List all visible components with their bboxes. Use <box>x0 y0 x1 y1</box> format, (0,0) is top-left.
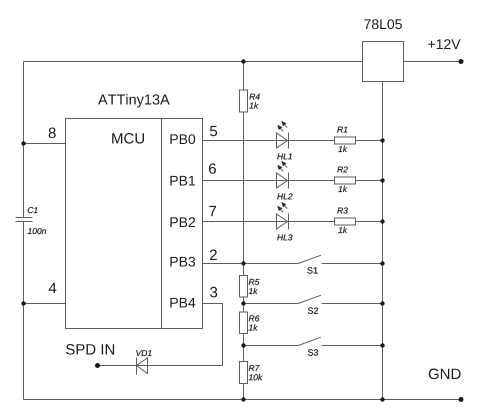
label GND <box>429 369 461 380</box>
label R2 <box>337 167 348 173</box>
label S3 <box>308 349 318 355</box>
junction mid rail / GND rail <box>241 397 245 401</box>
label R6 <box>249 315 260 321</box>
pin number 2 <box>210 250 217 261</box>
resistor R7 <box>240 362 248 384</box>
resistor R3 <box>335 218 356 225</box>
label S1 <box>307 267 317 273</box>
LED HL3 <box>277 202 289 230</box>
junction S3 / mid rail <box>241 343 245 347</box>
node SPD IN terminal <box>95 363 100 368</box>
wire R6 to R7 <box>243 334 245 362</box>
label S2 <box>308 308 318 314</box>
LED HL1 <box>277 121 289 149</box>
wire PB0 row <box>203 140 383 142</box>
wire PB1 row <box>203 180 383 182</box>
pin number 6 <box>209 163 216 174</box>
node GND terminal <box>459 397 464 402</box>
node +12V terminal <box>459 59 464 64</box>
label PB1 <box>170 176 195 186</box>
switch S3 blade <box>298 337 321 345</box>
label ATTiny13A <box>98 94 170 108</box>
label R5 <box>249 279 260 285</box>
label R1 value 1k <box>338 146 347 152</box>
pin number 5 <box>210 126 217 136</box>
label R3 value 1k <box>338 227 347 233</box>
wire left rail lower (C1 to GND) <box>23 222 25 400</box>
resistor R2 <box>335 177 356 184</box>
wire bottom GND rail <box>24 399 462 401</box>
resistor R5 <box>240 276 248 298</box>
wire R5 to R6 <box>243 297 245 312</box>
junction pin 4 / left rail <box>21 301 25 305</box>
label R5 value 1k <box>249 288 258 294</box>
label +12V <box>428 39 460 49</box>
switch S2 blade <box>298 295 321 303</box>
resistor R4 <box>240 90 248 112</box>
label R2 value 1k <box>338 186 347 192</box>
capacitor C1 <box>16 218 33 222</box>
wire S3 to right rail <box>322 345 383 347</box>
label R4 value 1k <box>249 102 258 108</box>
junction mid rail / top rail <box>241 59 245 63</box>
wire pin 4 stub <box>24 303 66 305</box>
MCU pin-column divider <box>161 119 163 329</box>
label C1 <box>28 207 38 213</box>
pin number 3 <box>210 287 217 298</box>
label C1 value 100n <box>28 228 46 234</box>
LED HL2 <box>277 161 289 189</box>
junction S2 / mid rail <box>241 301 245 305</box>
label R3 <box>337 208 348 214</box>
wire SPD IN to VD1 to PB4 <box>98 365 223 367</box>
label VD1 <box>136 350 151 356</box>
wire S1 to right rail <box>322 263 383 265</box>
wire regulator output rail <box>382 82 384 400</box>
regulator U1 78L05 <box>363 42 404 82</box>
label HL1 <box>277 154 292 160</box>
junction S3 / right rail <box>380 343 384 347</box>
pin number 4 <box>49 283 57 293</box>
label HL3 <box>277 234 292 240</box>
wire mid rail top to R4 <box>243 62 245 91</box>
junction R3 / +5V rail <box>380 219 384 223</box>
label R7 <box>249 365 260 371</box>
resistor R6 <box>240 312 248 334</box>
label R7 value 10k <box>249 374 263 380</box>
label R4 <box>250 94 260 100</box>
wire left rail upper (+5V to C1) <box>23 62 25 218</box>
label 78L05 <box>364 19 402 29</box>
pin number 8 <box>49 128 56 139</box>
wire S2 to right rail <box>322 303 383 305</box>
label HL2 <box>277 193 292 199</box>
label R6 value 1k <box>249 324 258 330</box>
wire R7 to GND rail <box>243 384 245 400</box>
wire S3 row left <box>244 345 299 347</box>
label SPD IN <box>66 344 114 355</box>
wire mid rail R4 to S1 row <box>243 112 245 276</box>
label PB0 <box>170 134 195 144</box>
label R1 <box>337 127 347 133</box>
switch S1 blade <box>298 255 321 263</box>
wire PB4 pin 3 L-bend <box>203 304 223 366</box>
label PB2 <box>170 217 195 227</box>
label PB4 <box>170 298 195 308</box>
junction S1 / mid rail <box>241 261 245 265</box>
junction pin 8 / left rail <box>21 141 25 145</box>
junction S2 / right rail <box>380 301 384 305</box>
wire S2 row left <box>244 303 299 305</box>
wire PB3 row to S1 <box>203 263 299 265</box>
wire pin 8 stub <box>24 143 66 145</box>
wire +12V input from regulator <box>404 61 462 63</box>
junction right rail / GND rail <box>380 397 384 401</box>
resistor R1 <box>335 137 356 144</box>
op-amp U2 MCU ATTiny13A body <box>66 119 203 329</box>
label PB3 <box>170 257 195 267</box>
junction R1 / +5V rail <box>380 138 384 142</box>
wire +5V top rail <box>24 61 363 63</box>
wire PB2 row <box>203 221 383 223</box>
diode VD1 <box>137 358 148 375</box>
junction S1 / right rail <box>380 261 384 265</box>
label MCU <box>112 133 144 144</box>
junction R2 / +5V rail <box>380 178 384 182</box>
pin number 7 <box>209 206 216 216</box>
